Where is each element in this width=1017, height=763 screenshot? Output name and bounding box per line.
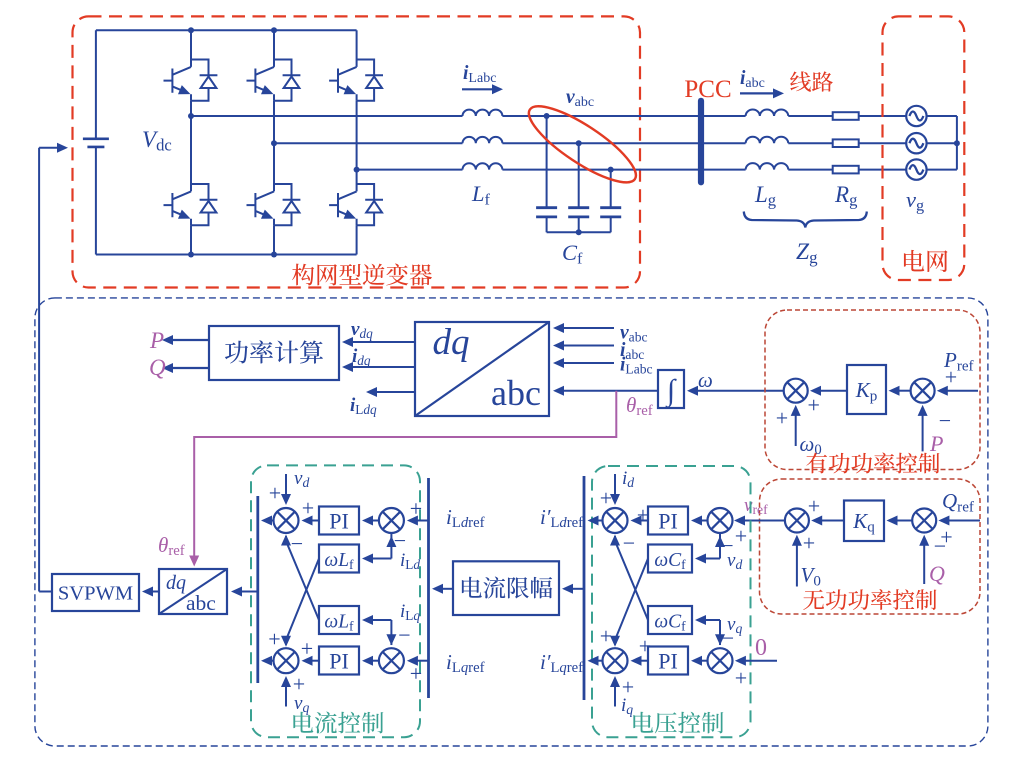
node: capacitor bus midpoint (576, 229, 582, 235)
summer S3 (vq + PI + wLf) (274, 648, 299, 673)
svg-text:+: + (293, 672, 305, 697)
signal vabc input (560, 327, 614, 329)
svg-text:Q: Q (149, 355, 166, 380)
svg-text:+: + (639, 634, 651, 659)
node: phase tap leg 3 (354, 167, 360, 173)
current control left bus bar (256, 496, 259, 683)
svg-text:+: + (945, 365, 957, 390)
summer S1 (vd + PI - wLf) (274, 508, 299, 533)
signal Qref (945, 520, 980, 522)
block 功率计算 (power calculation) (209, 326, 339, 380)
current control right bus bar (427, 478, 430, 698)
node: bottom rail junctions (188, 252, 194, 258)
signal 0 into S8 (742, 660, 778, 662)
small dq/abc block (159, 569, 227, 614)
transistor Q3 (IGBT top leg 3) (329, 60, 383, 101)
wire: inverter leg 2 (273, 30, 275, 59)
signal iLabc input (560, 362, 614, 364)
svg-text:PCC: PCC (684, 76, 731, 103)
AC source vg phase A (906, 106, 926, 126)
gain block Kp (847, 365, 886, 414)
label P output (169, 339, 209, 341)
svg-text:−: − (934, 534, 946, 559)
wire S1 output to bus (268, 520, 274, 522)
signal iLq stub (390, 620, 392, 645)
svg-text:−: − (623, 531, 635, 556)
svg-text:−: − (291, 531, 303, 556)
inductor Lg phase C (746, 163, 789, 170)
svg-text:+: + (600, 624, 612, 649)
AC source vg phase B (906, 133, 926, 153)
signal Pref (943, 390, 978, 392)
capacitor Cf phase C (608, 167, 614, 173)
wire PI to S1 (308, 520, 319, 522)
wire S8 to PI (698, 660, 708, 662)
svg-text:−: − (721, 533, 733, 558)
controller enclosure (blue dashed) (35, 298, 988, 746)
label 有功功率控制 (806, 452, 939, 473)
wire: PCC to Lg phase A (701, 115, 746, 117)
wire S2 to PI (369, 520, 379, 522)
signal idq (349, 366, 415, 368)
resistor Rg phase B (833, 139, 859, 147)
svg-text:+: + (302, 496, 314, 521)
svg-text:+: + (268, 627, 280, 652)
wire summer to Kp (895, 390, 911, 392)
label 电流控制 (293, 712, 383, 734)
signal iabc input (560, 345, 614, 347)
svg-text:dq: dq (166, 572, 186, 594)
transistor Q6 (IGBT bottom leg 3) (329, 184, 383, 225)
signal vd into S1 (285, 474, 287, 498)
active power control enclosure (765, 310, 980, 470)
signal V0 (796, 541, 798, 586)
svg-text:PI: PI (329, 509, 349, 534)
wire: Lg to Rg (788, 142, 832, 144)
wire S3 output to bus (268, 660, 274, 662)
summer (Q error) (912, 509, 936, 533)
inductor Lg phase B (746, 137, 789, 144)
reactive power control enclosure (760, 479, 981, 614)
inductor Lf phase B (463, 137, 503, 143)
label 线路 (790, 71, 833, 91)
grid enclosure (red dashed) 电网 (883, 16, 965, 280)
wire PI to S5 (637, 520, 648, 522)
svg-text:PI: PI (658, 649, 678, 674)
resistor Rg phase A (833, 112, 859, 120)
svg-text:+: + (776, 406, 788, 431)
svg-text:P: P (149, 328, 164, 353)
wire: phase B filter to PCC (502, 142, 701, 144)
summer S5 (id + PI - wCf) (603, 508, 628, 533)
svg-text:−: − (398, 623, 410, 648)
wire: Rg to grid source (859, 169, 907, 171)
svg-text:PI: PI (658, 509, 678, 534)
capacitor Cf phase A (544, 113, 550, 119)
signal omega0 (795, 412, 797, 447)
svg-text:SVPWM: SVPWM (58, 583, 133, 605)
signal iq into S7 (614, 683, 616, 707)
PI block d-axis (319, 507, 359, 535)
label 无功功率控制 (803, 589, 936, 610)
wire: Rg to grid source (859, 142, 907, 144)
signal vq into S3 (285, 683, 287, 707)
current limiter block 电流限幅 (453, 561, 559, 615)
transistor Q4 (IGBT bottom leg 1) (164, 184, 218, 225)
svg-text:Q: Q (929, 561, 945, 586)
signal id into S5 (614, 474, 616, 498)
signal Q feedback (923, 541, 925, 584)
transistor Q5 (IGBT bottom leg 2) (247, 184, 301, 225)
voltage control enclosure 电压控制 (592, 466, 751, 737)
transistor Q2 (IGBT top leg 2) (247, 60, 301, 101)
svg-text:−: − (394, 528, 406, 553)
wire: phase C filter to PCC (502, 169, 701, 171)
node: phase tap leg 2 (271, 140, 277, 146)
wire: inverter leg 1 (190, 30, 192, 59)
wire cross-coupling wCf lower to S5 (615, 536, 648, 620)
wire: inverter leg 3 (356, 30, 358, 59)
wCf block lower (648, 606, 692, 634)
svg-text:ω: ω (698, 368, 713, 392)
summer (omega) (784, 379, 808, 403)
wire: Rg to grid source (859, 115, 907, 117)
signal vq stub to wCf (719, 620, 721, 645)
wCf block upper (648, 545, 692, 573)
SVPWM block (52, 574, 139, 611)
integrator block (658, 370, 684, 408)
svg-text:0: 0 (755, 635, 767, 661)
wire: phase A filter to PCC (502, 115, 701, 117)
brace Zg (744, 212, 867, 228)
summer S8 (0 - vq) (708, 648, 733, 673)
wire: Lg to Rg (788, 115, 832, 117)
node: phase tap leg 1 (188, 113, 194, 119)
inductor Lf phase C (463, 163, 503, 169)
wire S6 to PI (698, 520, 708, 522)
wire: phase C to filter inductor (357, 169, 463, 171)
wire iLqref bus to S4 (414, 660, 429, 662)
wire S5 output i'Ldref to bus (594, 520, 602, 522)
summer S6 (vref - vd) (708, 508, 733, 533)
label 电压控制 (633, 712, 723, 734)
node: grid bus midpoint (954, 140, 960, 146)
wire iLdref bus to S2 (414, 520, 429, 522)
wire PI to S7 (637, 660, 648, 662)
dq/abc transform block (415, 322, 549, 416)
wire cross-coupling wLf upper to S3 (286, 559, 319, 646)
wire: DC top rail (96, 29, 357, 31)
wire cross-coupling wCf upper to S7 (615, 559, 648, 646)
summer (V0) (785, 509, 809, 533)
wire: grid right bus (956, 116, 958, 170)
summer (P error) (911, 379, 935, 403)
PI block q-axis (319, 647, 359, 675)
measurement ellipse around vabc (520, 94, 645, 194)
svg-text:+: + (600, 486, 612, 511)
DC source Vdc battery (95, 30, 97, 139)
label Q output (169, 367, 209, 369)
wLf block upper (319, 545, 359, 573)
wire: phase A to filter inductor (191, 115, 463, 117)
grid-forming inverter enclosure (red dashed) (73, 16, 641, 287)
svg-text:−: − (939, 408, 951, 433)
svg-text:P: P (929, 431, 943, 456)
node: top rail junctions (188, 27, 194, 33)
wire S4 to PI (369, 660, 379, 662)
gain block Kq (844, 501, 884, 542)
svg-text:+: + (808, 494, 820, 519)
label 电网 (904, 250, 948, 272)
wire: omega from P control to integrator (694, 390, 784, 392)
wire Kp to summer (817, 390, 847, 392)
inductor Lf phase A (463, 110, 503, 116)
PI block voltage d (648, 507, 688, 535)
wire: PCC to Lg phase C (701, 169, 746, 171)
AC source vg phase C (906, 159, 926, 179)
wire cross-coupling wLf lower to S1 (286, 536, 319, 620)
label 构网型逆变器 (292, 264, 432, 286)
signal vd stub to wCf (719, 533, 721, 559)
wire: Lg to Rg (788, 169, 832, 171)
svg-text:+: + (803, 531, 815, 556)
voltage control left bus bar (583, 476, 586, 700)
svg-text:PI: PI (329, 649, 349, 674)
capacitor Cf phase B (576, 140, 582, 146)
signal vdq (349, 341, 415, 343)
wire voltage bus to limiter (569, 588, 584, 590)
PCC busbar (698, 101, 704, 183)
svg-text:abc: abc (186, 591, 216, 615)
resistor Rg phase C (833, 166, 859, 174)
svg-text:abc: abc (491, 373, 541, 413)
signal P feedback (922, 412, 924, 452)
wire: PCC to Lg phase B (701, 142, 746, 144)
wire Kq to summer (818, 520, 844, 522)
summer S7 (iq + PI + wCf) (603, 648, 628, 673)
wire summer to Kq (893, 520, 912, 522)
label iabc with arrow (740, 92, 777, 94)
wire: DC bottom rail (96, 254, 357, 256)
signal iLdq (373, 391, 415, 393)
svg-text:+: + (301, 636, 313, 661)
svg-text:+: + (410, 496, 422, 521)
summer S2 (iLdref - iLd) (379, 508, 404, 533)
signal iLd stub (390, 533, 392, 559)
wire: source to grid bus (927, 169, 957, 171)
svg-text:+: + (637, 503, 649, 528)
wire PI to S3 (308, 660, 319, 662)
wire bus to dq/abc (238, 591, 258, 593)
wire: theta_ref to dq block (560, 390, 658, 392)
inductor Lg phase A (746, 109, 789, 116)
svg-text:+: + (735, 524, 747, 549)
svg-text:+: + (735, 666, 747, 691)
svg-text:dq: dq (433, 322, 470, 363)
theta_ref purple wire (194, 391, 616, 563)
svg-text:+: + (807, 393, 819, 418)
wire dq/abc to SVPWM (149, 591, 159, 593)
svg-text:−: − (722, 626, 734, 651)
wire S7 output i'Lqref to bus (594, 660, 602, 662)
svg-text:+: + (410, 661, 422, 686)
label iLabc with arrow (462, 88, 496, 90)
wire limiter to current bus (439, 588, 453, 590)
wire: source to grid bus (927, 115, 957, 117)
svg-text:+: + (622, 675, 634, 700)
summer S4 (iLqref - iLq) (379, 648, 404, 673)
wLf block lower (319, 606, 359, 634)
signal vref to voltage control (741, 520, 785, 522)
wire: phase B to filter inductor (274, 142, 463, 144)
wire: source to grid bus (927, 142, 957, 144)
wire: capacitor common bus (547, 231, 611, 233)
transistor Q1 (IGBT top leg 1) (164, 60, 218, 101)
svg-text:∫: ∫ (665, 374, 677, 409)
feedback wire SVPWM to inverter (39, 591, 52, 593)
svg-text:+: + (269, 481, 281, 506)
PI block voltage q (648, 647, 688, 675)
current control enclosure 电流控制 (251, 465, 420, 737)
